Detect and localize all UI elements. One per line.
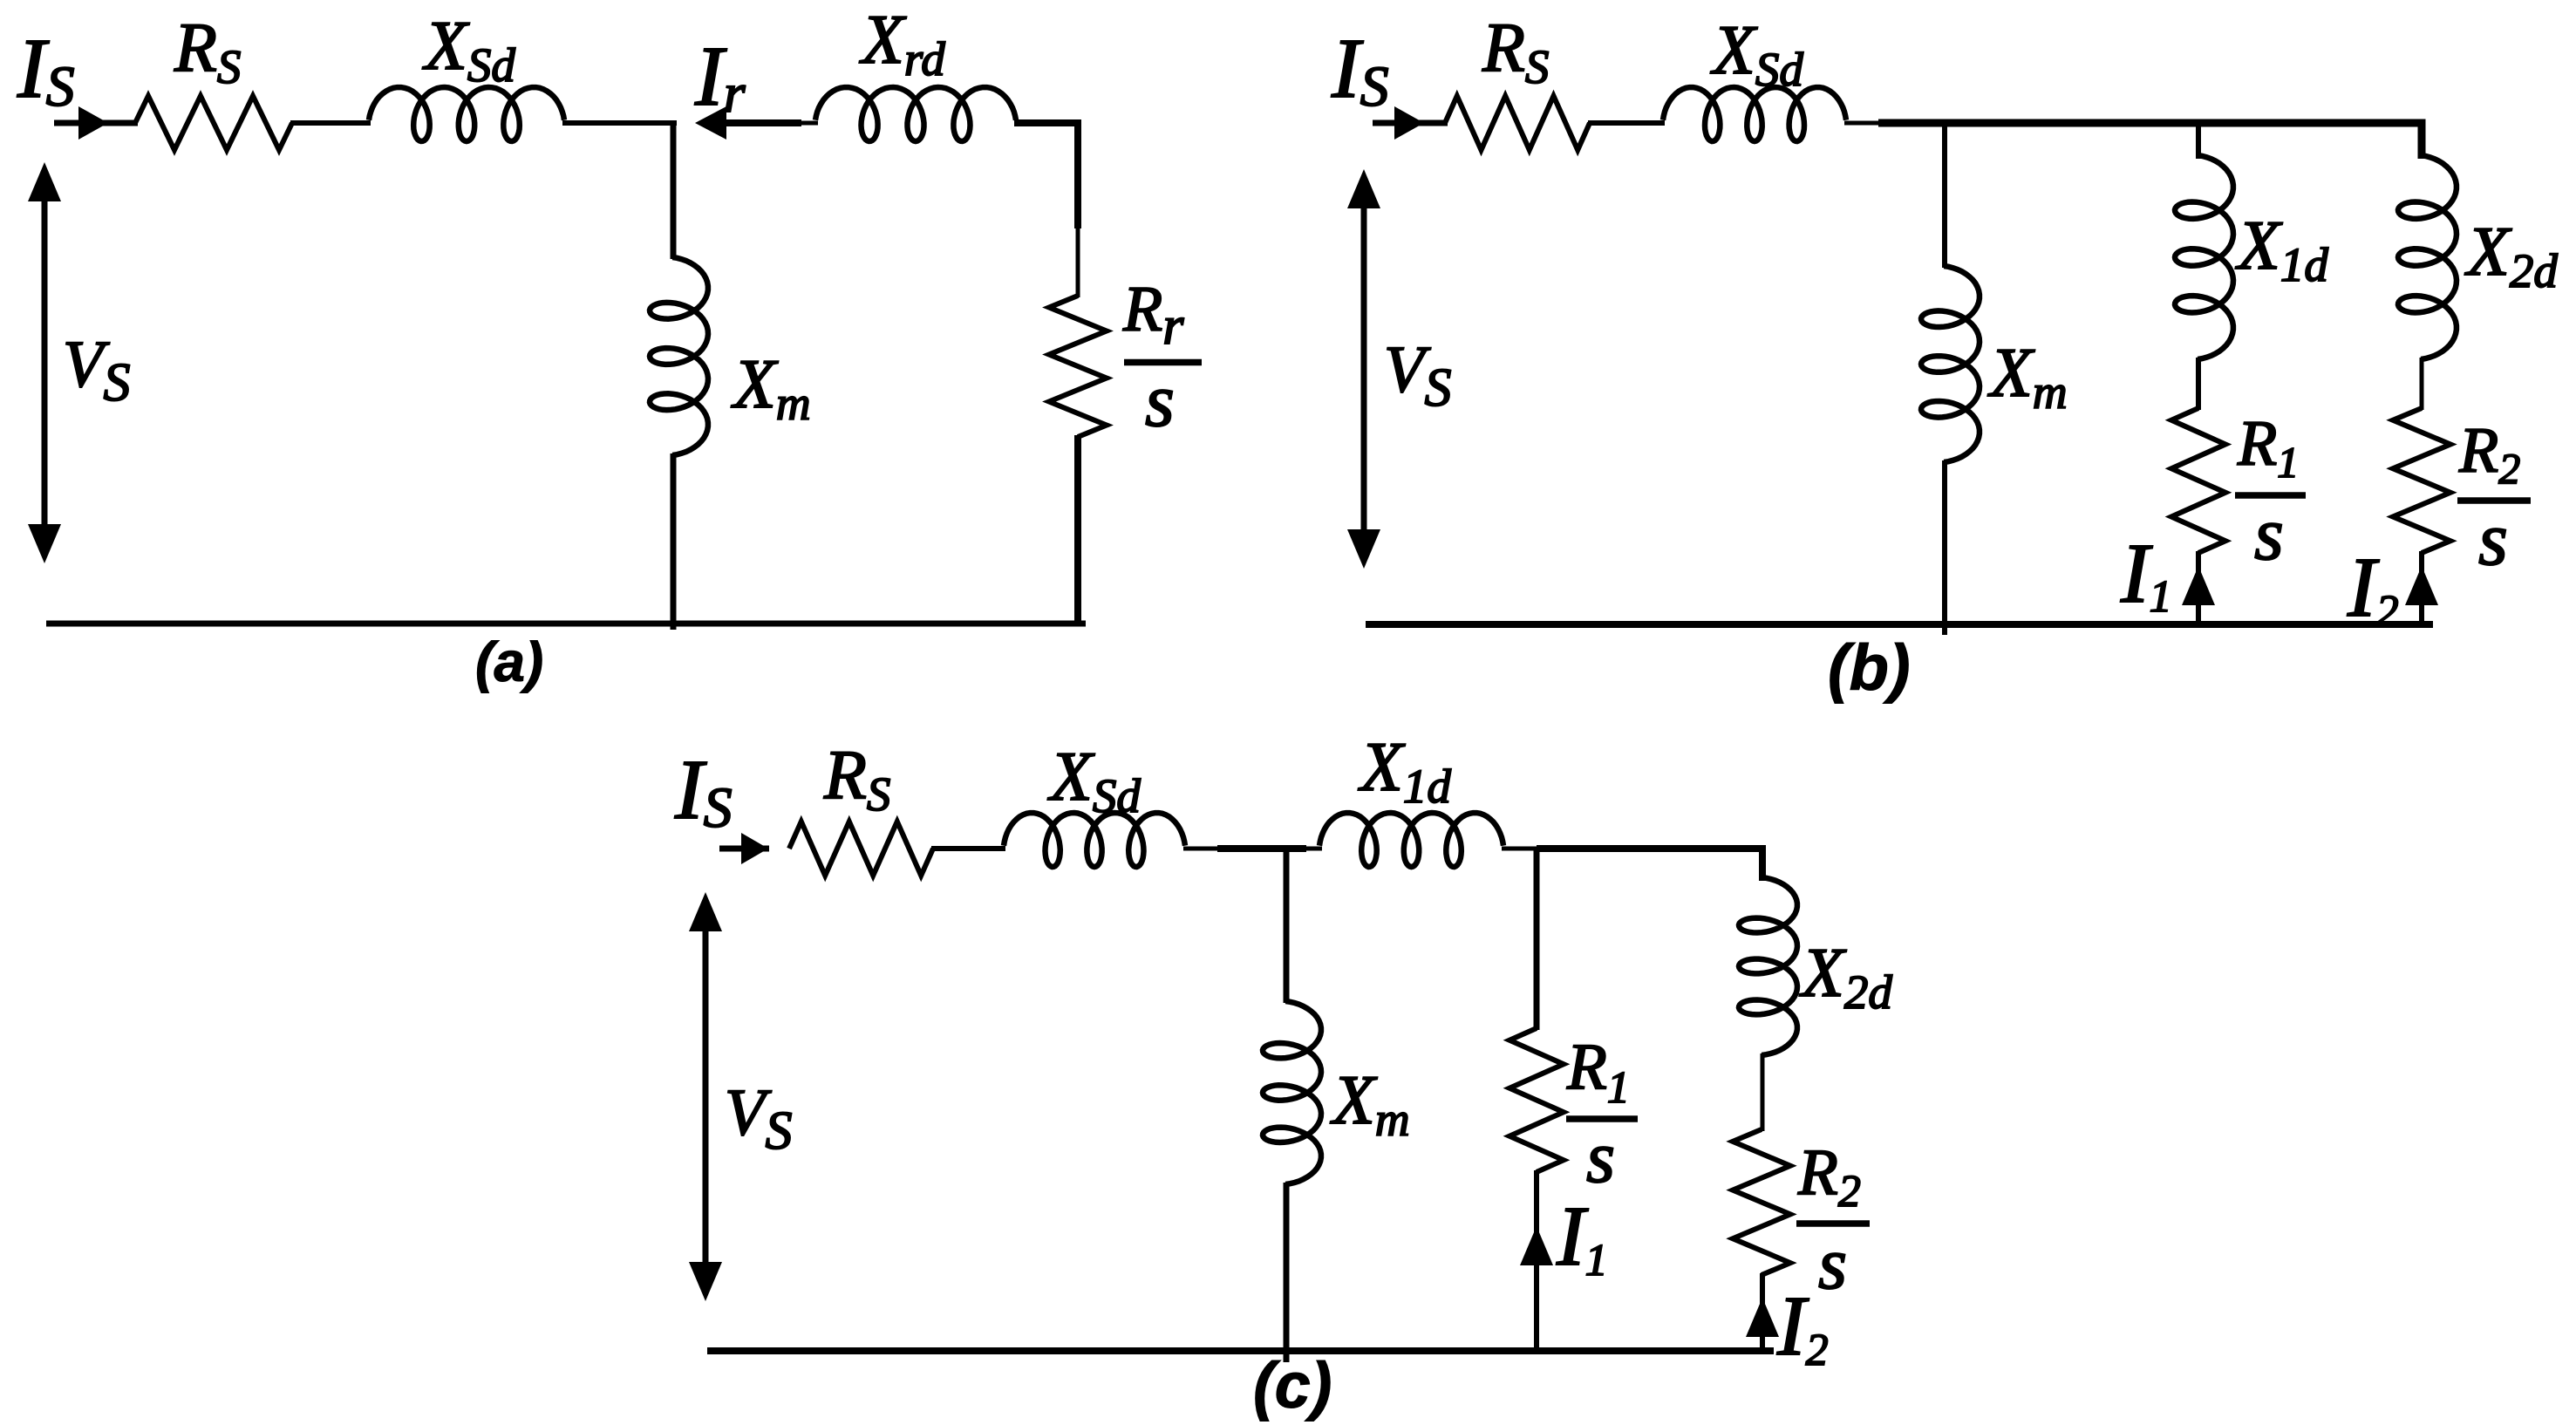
resistor RS (a): [135, 96, 292, 150]
node A junction vertical (a): [671, 120, 677, 259]
resistor R2/s (b): [2393, 408, 2450, 553]
svg-text:s: s: [1145, 358, 1175, 442]
svg-text:s: s: [1818, 1223, 1847, 1305]
inductor Xm (b): [1921, 266, 1980, 462]
resistor Rr/s (a): [1049, 296, 1107, 437]
bottom wire (a): [46, 621, 1086, 627]
inductor Xrd (a): [815, 87, 1016, 141]
wire Xm to bottom (c): [1284, 1183, 1290, 1362]
wire Xrd to corner (a): [1014, 123, 1078, 228]
current arrow I1 (b): [2182, 566, 2215, 605]
wire XSd to node A (a): [562, 120, 677, 126]
resistor R2/s (c): [1733, 1129, 1790, 1275]
wire node to X1d (c): [1303, 847, 1322, 851]
node Is input terminal (c): [719, 846, 769, 852]
svg-text:s: s: [2478, 496, 2508, 581]
current arrow I2 (c): [1746, 1298, 1779, 1337]
current arrow Is (a): [78, 106, 108, 140]
node X1d junction (b): [2196, 123, 2201, 159]
node Xm junction (c): [1284, 849, 1290, 1003]
resistor RS (c): [789, 822, 933, 876]
node Xm junction (b): [1942, 123, 1947, 268]
svg-text:(b): (b): [1828, 631, 1911, 704]
wire R1 to bottom (c): [1534, 1170, 1539, 1352]
wire R1 to bottom (b): [2196, 551, 2201, 626]
bottom wire (b): [1366, 621, 2433, 628]
svg-text:s: s: [2254, 491, 2284, 576]
top bus wire (b): [1878, 123, 2422, 159]
current arrow I2 (b): [2405, 566, 2438, 605]
wire RS to XSd (c): [931, 846, 1005, 851]
voltage arrow Vs (b): [1361, 188, 1367, 549]
bottom wire (c): [707, 1347, 1774, 1354]
node Is input terminal (a): [54, 120, 138, 126]
wire R2 to bottom (c): [1760, 1273, 1765, 1352]
inductor Xm (a): [650, 257, 708, 455]
inductor XSd (c): [1004, 813, 1185, 867]
voltage arrow Vs (a): [42, 181, 48, 544]
node Is input terminal (b): [1373, 120, 1448, 126]
inductor X2d (c): [1739, 877, 1797, 1055]
resistor R1/s (b): [2171, 408, 2225, 553]
svg-text:(a): (a): [475, 631, 543, 693]
top bus to X2d corner (c): [1537, 849, 1762, 881]
wire X1d to node R1 (c): [1502, 847, 1538, 851]
wire XSd to bus (b): [1844, 121, 1882, 126]
current arrow Is (c): [741, 833, 768, 864]
wire X2d to R2 (b): [2420, 358, 2424, 410]
resistor RS (b): [1445, 96, 1590, 150]
current arrow Ir (a): [695, 106, 726, 140]
inductor XSd (b): [1663, 87, 1846, 141]
wire Xm to bottom (a): [671, 453, 677, 630]
svg-text:(c): (c): [1253, 1349, 1332, 1422]
resistor R1/s (c): [1509, 1028, 1564, 1172]
inductor X1d (b): [2175, 155, 2233, 359]
wire Xm to bottom (b): [1942, 460, 1947, 635]
current arrow Is (b): [1394, 106, 1424, 140]
svg-text:s: s: [1586, 1116, 1615, 1198]
wire X2d to R2 (c): [1761, 1053, 1765, 1131]
voltage arrow Vs (c): [703, 911, 709, 1282]
wire R2 to bottom (b): [2419, 551, 2424, 626]
wire RS to XSd (b): [1588, 120, 1665, 126]
node R1 junction (c): [1534, 849, 1540, 1030]
inductor X2d (b): [2398, 155, 2457, 359]
inductor Xm (c): [1263, 1001, 1321, 1184]
current arrow I1 (c): [1520, 1226, 1553, 1265]
wire XSd to node (c): [1183, 847, 1221, 851]
wire Rr to bottom (a): [1074, 435, 1081, 626]
wire RS to XSd (a): [290, 120, 371, 126]
wire corner to Rr (a): [1076, 223, 1080, 297]
inductor X1d (c): [1319, 813, 1503, 867]
inductor XSd (a): [369, 87, 564, 141]
wire X1d to R1 (b): [2196, 358, 2201, 410]
